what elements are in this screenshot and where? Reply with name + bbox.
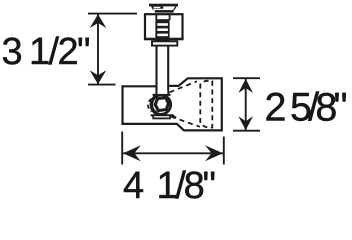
dimension 4 1/8 right tick [223,137,225,165]
adapter divider right [169,14,171,21]
adapter bottom edge [145,38,183,40]
swivel tab [153,115,170,118]
dimension 2 5/8 bottom cap [233,130,260,132]
svg-text:3: 3 [2,31,23,73]
adapter divider left [155,14,157,21]
dimension 2 5/8 top cap [233,77,260,79]
dimension 3 1/2 bottom cap [88,84,116,86]
stem right edge [167,46,169,94]
svg-text:5/8": 5/8" [290,85,348,129]
adapter threaded column [155,19,169,41]
dimension 3 1/2 arrowheads [90,14,107,84]
swivel ball thick left arc [151,96,157,113]
track adapter body [145,14,183,39]
screw head [149,4,178,13]
svg-text:2: 2 [265,85,287,129]
dimension 4 1/8 left tick [121,132,123,165]
dimension 2 5/8 vertical line [245,79,247,131]
hidden cone bottom dashed line [171,117,200,127]
clip dashed arc left of ball [148,99,152,112]
dimension 3 1/2 vertical line [97,14,99,84]
swivel nut hexagon [155,98,168,111]
adapter flange [152,41,177,45]
svg-text:1/2": 1/2" [29,31,91,73]
dimension 4 1/8 horizontal line [123,152,224,154]
dimension 2 5/8 arrowheads [238,79,253,130]
under line hook [173,115,177,117]
svg-text:4: 4 [123,165,144,200]
swivel ball circle [151,95,170,114]
stem left edge [155,46,157,94]
bell shoulder [153,94,171,96]
dimension 3 1/2 top cap [88,13,137,15]
hidden opening dashed oval [200,81,212,128]
hidden cone top dashed line [170,81,198,92]
dimension 4 1/8 arrowheads [123,145,223,161]
swivel under line [151,114,174,116]
stem opening into ball [158,90,168,94]
lamp housing outline [123,78,222,130]
bell wedge [153,94,162,100]
svg-text:1/8": 1/8" [157,165,217,200]
